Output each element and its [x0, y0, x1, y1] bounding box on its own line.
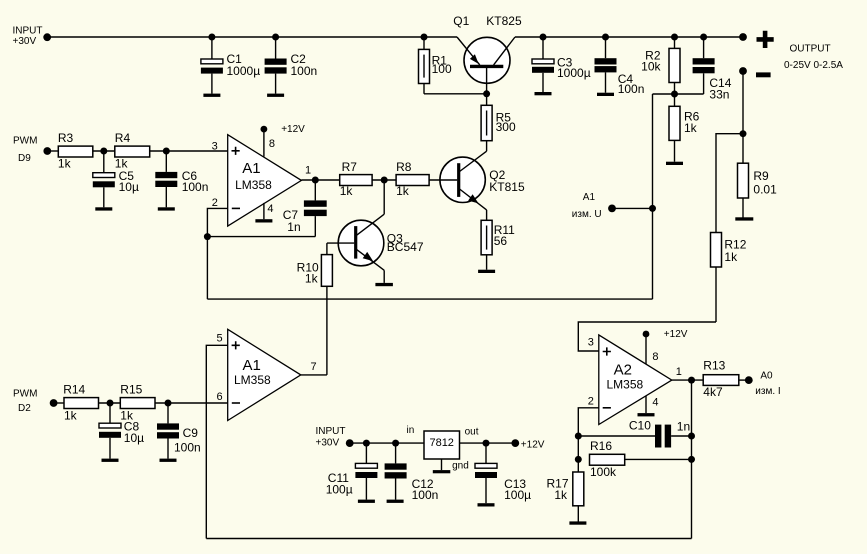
ground R9 — [735, 217, 753, 220]
svg-text:PWM: PWM — [13, 388, 37, 399]
svg-text:3: 3 — [588, 337, 594, 349]
svg-text:1: 1 — [305, 165, 311, 177]
svg-text:D9: D9 — [18, 153, 31, 164]
wire 7812 out to +12V terminal — [460, 442, 516, 444]
capacitor C7 1n — [283, 180, 327, 237]
wire izm.U vertical — [652, 94, 654, 299]
svg-text:6: 6 — [217, 391, 223, 403]
ground U1 7812 — [433, 459, 451, 473]
node C1 rail junction — [208, 34, 215, 41]
node R2 R6 C14 junction — [671, 91, 678, 98]
wire R14 to R15 — [99, 402, 121, 404]
resistor R10 1k — [297, 243, 333, 375]
node C14 rail junction — [700, 34, 707, 41]
node INPUT +30V terminal — [13, 26, 52, 47]
svg-text:1k: 1k — [684, 121, 698, 135]
node izm.U junction — [649, 205, 656, 212]
wire R7 to R8 — [372, 179, 396, 181]
resistor R3 1k — [58, 131, 93, 171]
svg-text:1k: 1k — [64, 408, 78, 422]
svg-text:+30V: +30V — [316, 437, 340, 448]
svg-text:R16: R16 — [590, 439, 612, 453]
node C3 rail junction — [540, 34, 547, 41]
wire bottom rail — [206, 538, 691, 540]
svg-text:1000µ: 1000µ — [557, 66, 591, 80]
svg-text:A1: A1 — [242, 160, 260, 177]
ground C5 — [95, 207, 112, 210]
wire R15 to A1 pin6 — [155, 402, 228, 404]
svg-text:100µ: 100µ — [504, 488, 531, 502]
svg-text:+30V: +30V — [13, 36, 37, 47]
svg-text:+12V: +12V — [664, 329, 688, 340]
op-amp A1 lower half LM358 — [217, 329, 317, 420]
capacitor C9 100n — [157, 403, 201, 459]
svg-text:in: in — [407, 425, 415, 436]
svg-text:A1: A1 — [243, 357, 261, 374]
capacitor C8 10µ — [99, 403, 144, 459]
svg-text:1k: 1k — [340, 184, 354, 198]
node C10 left junction — [575, 433, 582, 440]
regulator U1 7812 — [407, 425, 479, 471]
node +12V output terminal — [511, 439, 544, 450]
wire A1 pin5 stub to bottom rail — [206, 345, 227, 538]
svg-text:R7: R7 — [342, 160, 358, 174]
capacitor C1 1000µ — [201, 37, 260, 94]
svg-text:изм. U: изм. U — [572, 209, 602, 220]
svg-text:2: 2 — [212, 197, 218, 209]
op-amp A1 top half LM358 — [212, 135, 312, 226]
capacitor C3 1000µ — [532, 37, 591, 93]
capacitor C14 33n — [693, 37, 732, 102]
svg-text:10µ: 10µ — [119, 180, 139, 194]
svg-text:R15: R15 — [120, 382, 142, 396]
svg-text:LM358: LM358 — [234, 373, 271, 387]
wire A2 pin2 stub down to R17 — [578, 408, 599, 472]
ground C13 — [478, 503, 495, 506]
svg-text:300: 300 — [496, 120, 516, 134]
ground C2 — [267, 94, 284, 97]
svg-text:LM358: LM358 — [607, 378, 644, 392]
svg-text:D2: D2 — [18, 403, 31, 414]
node PWM D2 terminal — [13, 388, 57, 414]
ground C4 — [597, 93, 614, 96]
resistor R11 56 — [481, 220, 515, 269]
node R7 R8 Q3 junction — [381, 177, 388, 184]
ground R17 — [569, 521, 586, 524]
svg-text:INPUT: INPUT — [316, 426, 346, 437]
svg-text:1k: 1k — [396, 184, 410, 198]
capacitor C5 10µ — [93, 151, 139, 207]
svg-text:10k: 10k — [641, 60, 661, 74]
capacitor C10 1n — [578, 419, 691, 448]
svg-text:R3: R3 — [58, 131, 74, 145]
wire PWM D9 to R3 — [47, 150, 58, 152]
svg-text:10µ: 10µ — [124, 431, 144, 445]
svg-text:0.01: 0.01 — [753, 182, 777, 196]
ground C6 — [158, 207, 175, 210]
svg-text:7812: 7812 — [429, 437, 453, 449]
node R14 R15 C8 junction — [107, 400, 114, 407]
capacitor C4 100n — [595, 37, 645, 96]
wire A1 pin7 output to R10 — [301, 374, 327, 376]
wire voltage feedback horizontal — [207, 298, 652, 300]
svg-text:4: 4 — [267, 203, 273, 215]
node R3 R4 C5 junction — [100, 148, 107, 155]
resistor R4 1k — [115, 131, 150, 171]
wire C14 bottom link — [675, 93, 704, 95]
svg-text:100k: 100k — [590, 465, 617, 479]
svg-text:R4: R4 — [115, 131, 131, 145]
wire PWM D2 to R14 — [54, 402, 64, 404]
svg-text:5: 5 — [217, 333, 223, 345]
wire Q3 collector riser — [383, 180, 385, 214]
resistor R13 4k7 — [703, 358, 749, 399]
svg-text:33n: 33n — [709, 88, 729, 102]
wire R1 to Q1 base node — [424, 93, 487, 95]
svg-text:100: 100 — [432, 62, 452, 76]
node C12 junction — [392, 440, 399, 447]
wire C7 bottom to A1 pin2 node — [207, 236, 315, 238]
capacitor C11 100µ — [326, 443, 378, 500]
node A1 pin2 C7 junction — [204, 233, 211, 240]
svg-text:100n: 100n — [618, 82, 645, 96]
node C11 junction — [363, 440, 370, 447]
resistor R2 10k — [641, 37, 680, 94]
svg-text:1k: 1k — [554, 488, 568, 502]
ground C11 — [358, 500, 375, 503]
svg-text:R9: R9 — [753, 169, 769, 183]
resistor R8 1k — [396, 160, 429, 198]
svg-text:2: 2 — [588, 396, 594, 408]
op-amp A2 LM358 — [588, 335, 682, 425]
svg-text:1n: 1n — [287, 220, 300, 234]
node R2 rail junction — [671, 34, 678, 41]
ground R11 — [478, 270, 495, 273]
ground C3 — [535, 92, 552, 95]
svg-text:8: 8 — [652, 351, 658, 363]
node +12V supply A2 pin8 — [643, 329, 688, 364]
resistor R12 1k — [711, 233, 747, 323]
transistor Q1 KT825 — [453, 14, 522, 94]
wire R2/R6 junction to izm.U vertical — [653, 93, 675, 95]
svg-text:BC547: BC547 — [387, 240, 424, 254]
node R9 R12 junction — [740, 130, 747, 137]
svg-text:1k: 1k — [724, 250, 738, 264]
wire R12 branch from minus node — [716, 134, 743, 233]
svg-text:56: 56 — [494, 234, 508, 248]
resistor R5 300 — [481, 94, 516, 151]
ground C9 — [160, 459, 177, 462]
node C10 right junction — [688, 433, 695, 440]
svg-text:100n: 100n — [291, 64, 318, 78]
node C4 rail junction — [602, 34, 609, 41]
svg-text:A1: A1 — [583, 192, 596, 203]
wire A2 out feedback vertical — [691, 380, 693, 538]
node R15 C9 junction — [165, 400, 172, 407]
node R1 rail junction — [421, 34, 428, 41]
svg-text:R8: R8 — [396, 160, 412, 174]
svg-text:LM358: LM358 — [235, 178, 272, 192]
svg-text:1k: 1k — [305, 271, 319, 285]
resistor R15 1k — [120, 382, 155, 422]
node A1 izm.U terminal — [572, 192, 653, 220]
svg-text:1000µ: 1000µ — [227, 64, 261, 78]
svg-text:KT815: KT815 — [489, 180, 525, 194]
wire bottom input to 7812 in — [350, 442, 424, 444]
svg-text:+12V: +12V — [281, 124, 305, 135]
svg-text:3: 3 — [212, 141, 218, 153]
svg-text:R14: R14 — [63, 382, 85, 396]
svg-text:8: 8 — [269, 138, 275, 150]
svg-text:C9: C9 — [183, 426, 199, 440]
svg-text:PWM: PWM — [13, 135, 37, 146]
svg-text:A2: A2 — [614, 361, 632, 378]
resistor R9 0.01 — [738, 134, 778, 218]
node A0 izm.I terminal — [745, 370, 781, 397]
node PWM D9 terminal — [13, 135, 51, 164]
svg-text:0-25V 0-2.5A: 0-25V 0-2.5A — [784, 60, 843, 71]
wire R4 to A1 pin3 — [150, 150, 228, 152]
svg-text:1n: 1n — [677, 420, 690, 434]
ground C12 — [387, 500, 404, 503]
wire input +30V rail left segment — [47, 36, 457, 38]
svg-text:R13: R13 — [703, 358, 725, 372]
svg-text:4k7: 4k7 — [703, 385, 723, 399]
capacitor C13 100µ — [475, 443, 531, 503]
svg-text:100n: 100n — [174, 441, 201, 455]
resistor R7 1k — [340, 160, 372, 198]
node A1 out C7 junction — [312, 177, 319, 184]
svg-text:изм. I: изм. I — [755, 386, 780, 397]
ground R6 — [666, 162, 683, 165]
wire A2 pin1 output to R13 — [672, 379, 703, 381]
svg-text:gnd: gnd — [452, 461, 469, 472]
svg-text:100n: 100n — [182, 180, 209, 194]
node R16 left junction — [575, 456, 582, 463]
node Q1 base junction — [483, 90, 490, 97]
resistor R17 1k — [546, 472, 583, 522]
svg-text:Q1: Q1 — [453, 14, 469, 28]
ground C8 — [102, 459, 119, 462]
wire output rail right segment — [515, 36, 743, 38]
svg-text:+12V: +12V — [521, 439, 545, 450]
node OUTPUT minus terminal — [739, 67, 771, 77]
svg-text:100n: 100n — [412, 488, 439, 502]
wire A1 pin2 stub — [207, 208, 227, 299]
svg-text:A0: A0 — [760, 370, 773, 381]
svg-text:OUTPUT: OUTPUT — [790, 43, 831, 54]
node A2 out junction — [688, 377, 695, 384]
wire R12 bottom to A2 pin3 — [578, 322, 716, 351]
svg-text:100µ: 100µ — [326, 482, 353, 496]
resistor R6 1k — [669, 94, 700, 162]
ground Q3 emitter — [375, 283, 393, 286]
node R4 C6 junction — [163, 148, 170, 155]
node C13 junction — [483, 440, 490, 447]
svg-text:KT825: KT825 — [486, 14, 522, 28]
node C2 rail junction — [272, 34, 279, 41]
svg-text:1: 1 — [676, 366, 682, 378]
svg-text:1k: 1k — [58, 157, 72, 171]
svg-text:out: out — [465, 426, 479, 437]
capacitor C6 100n — [155, 151, 208, 207]
wire R3 to R4 — [93, 150, 115, 152]
ground C1 — [203, 94, 220, 97]
resistor R14 1k — [63, 382, 98, 422]
capacitor C2 100n — [265, 37, 318, 94]
ground A1 pin4 — [255, 203, 272, 223]
wire minus terminal down to R9 node — [742, 71, 744, 134]
resistor R1 100 — [419, 37, 452, 94]
ground A2 pin4 — [638, 396, 655, 417]
capacitor C12 100n — [385, 443, 439, 502]
node R16 right junction — [688, 456, 695, 463]
transistor Q3 BC547 — [327, 214, 424, 283]
resistor R16 100k — [590, 439, 692, 479]
svg-text:4: 4 — [652, 396, 658, 408]
node bottom INPUT +30V terminal — [316, 426, 354, 448]
node OUTPUT plus terminal — [739, 31, 843, 71]
svg-text:C10: C10 — [629, 419, 651, 433]
wire A1 pin1 output to R7 — [301, 179, 339, 181]
svg-text:7: 7 — [311, 361, 317, 373]
node +12V supply A1 pin8 — [261, 124, 306, 157]
transistor Q2 KT815 — [429, 151, 525, 220]
